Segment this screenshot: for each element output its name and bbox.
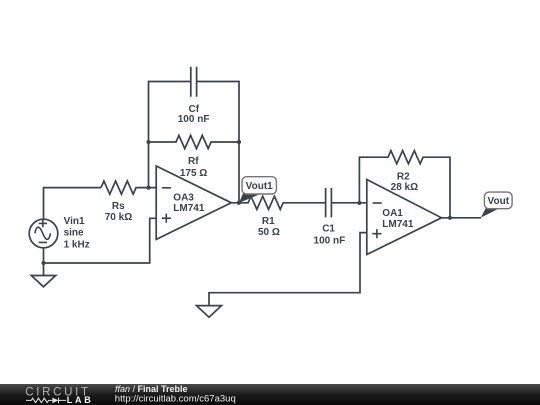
svg-text:28 kΩ: 28 kΩ (391, 182, 418, 193)
svg-text:LAB: LAB (67, 395, 94, 405)
svg-text:175 Ω: 175 Ω (180, 168, 207, 179)
svg-text:100 nF: 100 nF (314, 236, 346, 247)
svg-text:Vout: Vout (488, 196, 510, 207)
svg-text:100 nF: 100 nF (178, 114, 210, 125)
svg-text:OA1: OA1 (382, 208, 403, 219)
svg-text:1 kHz: 1 kHz (64, 239, 90, 250)
svg-text:LM741: LM741 (382, 219, 414, 230)
svg-text:70 kΩ: 70 kΩ (105, 212, 132, 223)
svg-text:C1: C1 (322, 224, 335, 235)
svg-text:OA3: OA3 (173, 192, 194, 203)
svg-text:50 Ω: 50 Ω (258, 227, 280, 238)
svg-text:LM741: LM741 (173, 203, 205, 214)
svg-text:Rf: Rf (188, 156, 199, 167)
svg-text:R2: R2 (397, 171, 410, 182)
svg-text:Rs: Rs (112, 201, 125, 212)
svg-text:Vout1: Vout1 (246, 181, 273, 192)
svg-text:R1: R1 (262, 216, 275, 227)
svg-text:sine: sine (64, 228, 84, 239)
svg-text:http://circuitlab.com/c67a3uq: http://circuitlab.com/c67a3uq (115, 393, 236, 404)
svg-text:Vin1: Vin1 (64, 216, 85, 227)
